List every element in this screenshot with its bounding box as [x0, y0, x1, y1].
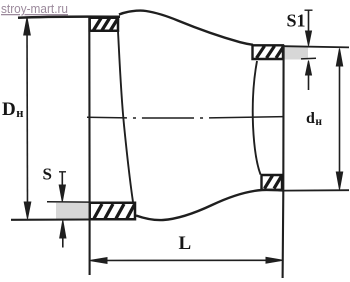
small end top wall section (hatched) [253, 45, 284, 59]
right inner junction line [253, 61, 261, 175]
small end bottom wall section (hatched) [262, 175, 283, 190]
bottom profile curve [136, 190, 284, 220]
adjoining pipe stub top-right (gray) [285, 47, 309, 60]
tick S top extension [47, 201, 89, 203]
extension line Dн bottom [11, 218, 90, 220]
svg-text:S1: S1 [287, 11, 306, 31]
svg-text:L: L [179, 233, 192, 254]
left face line [88, 17, 90, 275]
adjoining pipe stub bottom-left (gray) [56, 203, 89, 219]
left inner junction line [118, 31, 133, 202]
big end top wall section (hatched) [90, 18, 118, 31]
svg-text:Dн: Dн [2, 99, 23, 120]
dimension line Dн [24, 18, 31, 219]
svg-text:S: S [43, 165, 52, 184]
centerline [87, 117, 284, 119]
svg-text:stroy-mart.ru: stroy-mart.ru [1, 1, 68, 16]
tick S1 bottom [301, 57, 316, 60]
dimension line L [90, 257, 284, 263]
svg-text:dн: dн [306, 110, 322, 128]
extension line dн bottom [284, 189, 349, 191]
dimension line dн [336, 49, 342, 190]
dimension S arrows [59, 172, 66, 248]
right face line [283, 45, 284, 278]
extension line dн top [284, 46, 349, 47]
big end bottom wall section (hatched) [90, 203, 135, 219]
dimension S1 arrows [305, 10, 313, 90]
top profile curve [119, 11, 253, 45]
extension line Dн top [18, 17, 120, 18]
